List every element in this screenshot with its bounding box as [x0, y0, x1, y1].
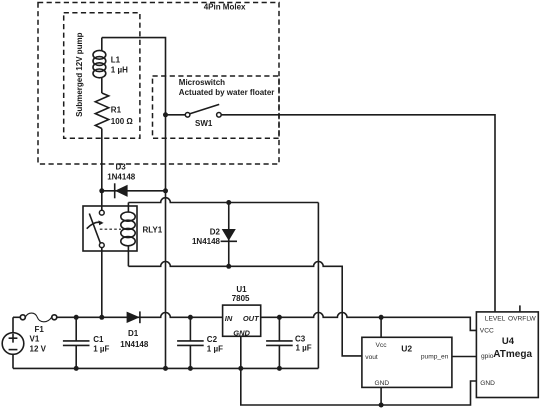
svg-text:SW1: SW1 — [195, 119, 213, 128]
svg-text:OVRFLW: OVRFLW — [508, 316, 536, 323]
svg-text:D1: D1 — [128, 329, 139, 338]
svg-text:D2: D2 — [210, 227, 221, 236]
svg-text:1 µF: 1 µF — [296, 344, 312, 353]
svg-text:LEVEL: LEVEL — [485, 316, 506, 323]
svg-text:D3: D3 — [116, 162, 127, 171]
svg-text:100 Ω: 100 Ω — [111, 117, 134, 126]
svg-text:ATmega: ATmega — [493, 349, 532, 360]
svg-text:VCC: VCC — [480, 327, 494, 334]
svg-text:GND: GND — [480, 380, 495, 387]
svg-text:1 µF: 1 µF — [93, 344, 109, 353]
svg-text:Microswitch: Microswitch — [179, 78, 225, 87]
svg-text:gpio: gpio — [481, 353, 494, 360]
svg-text:7805: 7805 — [232, 294, 250, 303]
svg-text:Vcc: Vcc — [376, 342, 388, 349]
svg-text:C1: C1 — [93, 335, 104, 344]
svg-text:C3: C3 — [295, 335, 306, 344]
svg-text:U4: U4 — [502, 336, 515, 347]
svg-text:1 µF: 1 µF — [207, 344, 223, 353]
svg-text:1 µH: 1 µH — [111, 66, 128, 75]
svg-text:R1: R1 — [111, 105, 122, 114]
svg-text:F1: F1 — [35, 325, 45, 334]
svg-text:1N4148: 1N4148 — [192, 237, 221, 246]
svg-text:Submerged 12V pump: Submerged 12V pump — [75, 32, 84, 117]
svg-text:C2: C2 — [207, 335, 218, 344]
svg-text:12 V: 12 V — [30, 344, 47, 353]
svg-text:V1: V1 — [30, 334, 40, 343]
svg-text:L1: L1 — [111, 55, 121, 64]
svg-text:OUT: OUT — [243, 314, 260, 323]
svg-text:U2: U2 — [401, 344, 412, 354]
svg-text:1N4148: 1N4148 — [120, 340, 149, 349]
svg-text:4Pin Molex: 4Pin Molex — [204, 3, 246, 12]
svg-text:GND: GND — [375, 380, 390, 387]
svg-text:IN: IN — [225, 314, 233, 323]
svg-text:1N4148: 1N4148 — [107, 173, 136, 182]
svg-text:U1: U1 — [236, 285, 247, 294]
svg-text:pump_en: pump_en — [421, 354, 449, 361]
svg-text:vout: vout — [365, 354, 378, 361]
svg-text:RLY1: RLY1 — [143, 226, 163, 235]
svg-text:Actuated by water floater: Actuated by water floater — [179, 88, 275, 97]
svg-text:GND: GND — [233, 328, 250, 337]
